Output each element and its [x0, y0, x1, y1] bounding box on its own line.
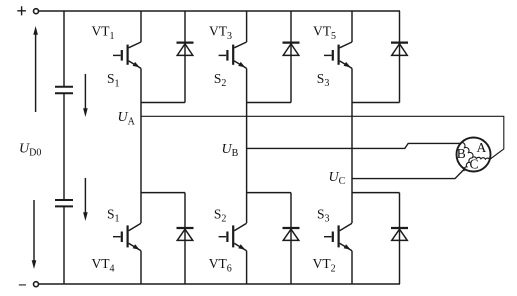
motor winding A coil — [472, 157, 490, 160]
terminal + (positive DC input) — [17, 6, 38, 15]
svg-text:A: A — [477, 140, 487, 155]
diode VD1 — [177, 43, 194, 56]
wire junction B lower — [247, 192, 291, 194]
transistor VT1 (IGBT) — [113, 42, 141, 68]
svg-text:B: B — [457, 146, 466, 161]
wire junction C upper — [352, 102, 400, 104]
diode VD4 — [177, 228, 194, 240]
wire bottom rail — [39, 283, 400, 285]
diode VD3 — [283, 43, 300, 56]
wire VT5 collector lead — [351, 11, 353, 42]
motor winding B coil — [460, 143, 473, 158]
transistor VT3 (IGBT) — [219, 42, 247, 68]
capacitor C1 — [55, 87, 73, 93]
arrow C2 voltage down — [83, 178, 88, 221]
wire VT2 emitter lead — [351, 251, 353, 284]
wire junction A lower — [141, 192, 185, 194]
motor M circle — [457, 138, 491, 172]
wire leg C middle — [351, 68, 353, 223]
capacitor C2 — [55, 200, 73, 206]
wire leg A middle (emitter VT1 to collector VT4) — [140, 68, 142, 223]
wire junction B upper — [247, 102, 291, 104]
diode VD5 column — [399, 11, 401, 103]
transistor VT2 (IGBT) — [324, 223, 352, 251]
wire top rail — [39, 10, 400, 12]
wire leg B middle — [246, 68, 248, 223]
diode VD4 column — [184, 193, 186, 284]
node UC output wire — [352, 169, 464, 178]
wire VT6 emitter lead — [246, 251, 248, 284]
diode VD6 column — [290, 193, 292, 284]
transistor VT4 (IGBT) — [113, 223, 141, 251]
arrow Ud0 down (left, bottom) — [32, 200, 37, 269]
wire VT3 collector lead — [246, 11, 248, 42]
diode VD3 column — [290, 11, 292, 103]
transistor VT5 (IGBT) — [324, 42, 352, 68]
wire VT4 emitter lead — [140, 251, 142, 284]
diode VD6 — [283, 228, 300, 240]
wire capacitor column upper — [63, 11, 65, 87]
diode VD2 column — [399, 193, 401, 284]
wire VT1 collector lead — [140, 11, 142, 42]
svg-text:C: C — [470, 156, 479, 171]
wire junction A upper — [141, 102, 185, 104]
wire junction C lower — [352, 192, 400, 194]
arrow Ud0 up (left, top) — [33, 26, 38, 112]
diode VD5 — [391, 43, 408, 56]
motor winding C coil — [464, 158, 472, 171]
wire capacitor mid — [63, 93, 65, 200]
terminal - (negative DC input) — [19, 282, 39, 287]
transistor VT6 (IGBT) — [219, 223, 247, 251]
node UA output wire — [141, 116, 504, 159]
node UB output wire — [247, 143, 460, 148]
arrow C1 voltage down — [83, 74, 88, 117]
wire capacitor column lower — [63, 206, 65, 284]
diode VD1 column — [184, 11, 186, 103]
diode VD2 — [391, 228, 408, 240]
